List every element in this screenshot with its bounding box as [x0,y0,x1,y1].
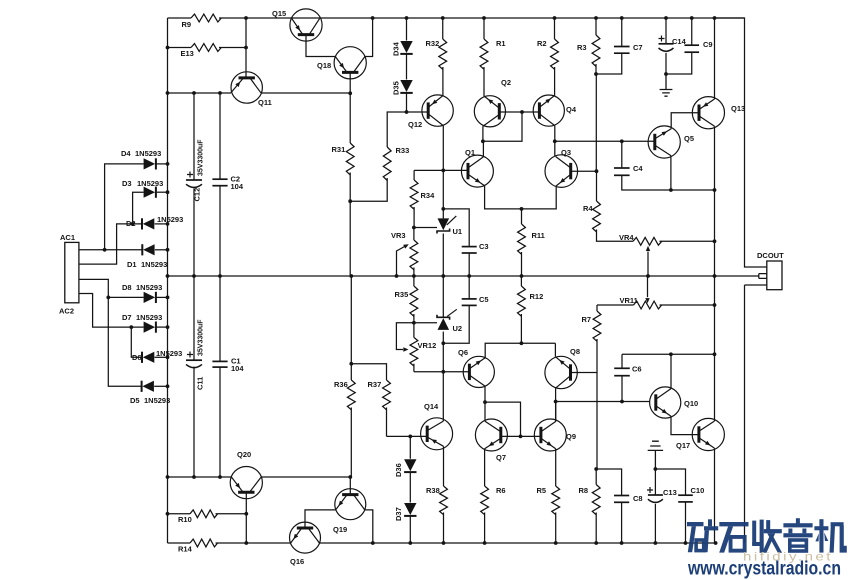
junction R14 right [244,541,248,545]
wire Q4 emitter row to Q5 base [555,140,655,142]
svg-text:U2: U2 [453,324,463,333]
wire Q11 row left [168,92,231,94]
wire D6 anode [155,356,168,358]
junction Q7 Q9 base [519,435,523,439]
svg-text:D4: D4 [121,149,131,158]
wire R31 top [349,93,351,143]
wire R37 bottom [386,408,389,437]
wire R33 top link [387,112,406,147]
svg-text:R36: R36 [334,380,348,389]
wire Q10 base row [556,401,650,403]
wire R31 bottom to mid rail [349,173,351,277]
junction E13 left [166,46,170,50]
wire Q2 Q4 base row [499,111,538,113]
wire R34 bottom [413,207,415,228]
svg-text:Q9: Q9 [566,432,576,441]
junction Q11 row x350 [348,91,352,95]
svg-text:1N5293: 1N5293 [136,283,162,292]
wire Q4 emitter to Q3 [554,126,556,157]
capacitor C2 [212,175,243,191]
junction x714 y190 [713,188,717,192]
wire Q18 base down [349,72,351,93]
svg-text:D2: D2 [126,219,136,228]
resistor E13 [191,44,221,52]
wire R2 top [554,18,556,39]
ground bottom [648,441,663,469]
junction top rail x372 [371,16,375,20]
wire C13 top [654,469,656,495]
wire R5 bottom [555,513,557,544]
wire R36 top [350,276,352,380]
wire Q6 collector up [485,343,555,357]
wire R6 bottom [484,513,486,544]
wire R10 left [168,513,191,515]
wire Q1 Q3 emitter link [485,186,557,209]
junction mid rail x648 [646,274,650,278]
resistor R2 [551,39,559,69]
watermark chinese text kuangshishouyinji [687,518,847,553]
wire VR4 right [660,240,715,242]
resistor R4 [593,201,601,232]
wire DCOUT mid stubs [759,274,767,279]
svg-text:1N5293: 1N5293 [157,215,183,224]
svg-text:D8: D8 [122,283,132,292]
svg-text:104: 104 [231,364,244,373]
svg-text:Q11: Q11 [258,98,272,107]
junction C13 top [654,467,658,471]
junction left column D2 [166,222,170,226]
wire R8 C8 top link [596,469,621,495]
svg-text:VR4: VR4 [619,233,634,242]
junction R10 right [244,512,248,516]
svg-text:C12: C12 [193,188,202,202]
wire E13 row left [168,47,192,49]
junction C14 C9 gnd [664,72,668,76]
wire base row drop [483,112,522,141]
svg-text:1N5293: 1N5293 [135,149,161,158]
wire R7 top link [596,305,598,311]
svg-text:1N5293: 1N5293 [136,313,162,322]
svg-text:Q2: Q2 [501,78,511,87]
junction Q6 base [441,370,445,374]
junction Q1 base x443 [441,169,445,173]
capacitor C7 [614,43,643,53]
svg-text:C14: C14 [672,37,687,46]
junction mid rail x220 [218,274,222,278]
junction C6 bottom [620,400,624,404]
junction R8 top [594,467,598,471]
junction top rail x554 [553,16,557,20]
junction left column D6 [166,355,170,359]
diode D36 [394,459,417,477]
wire D7 cathode [156,326,167,328]
junction bottom rail R38 [442,541,446,545]
wire R32 top [442,18,444,39]
junction mid rail x396 [395,274,399,278]
wire R37 top link [351,364,386,380]
wire bottom rail [319,542,715,544]
junction mid rail x714 [713,274,717,278]
wire C3 bottom [468,253,470,276]
wire C8 bottom [621,502,623,543]
svg-text:www.crystalradio.cn: www.crystalradio.cn [687,559,841,580]
wire R1 to Q2 [483,67,485,96]
svg-text:AC1: AC1 [60,233,75,242]
svg-text:1N5293: 1N5293 [144,396,170,405]
junction mid rail x351 [349,274,353,278]
svg-text:D37: D37 [394,507,403,521]
wire Q7 emitter down [484,449,486,486]
svg-text:D35: D35 [392,81,401,95]
svg-text:E13: E13 [181,49,194,58]
svg-text:VR11: VR11 [620,296,638,305]
wiper of VR4 [647,252,649,277]
wire C2 column [219,93,221,477]
svg-text:D1: D1 [127,260,137,269]
svg-text:C9: C9 [703,40,713,49]
svg-text:AC2: AC2 [59,307,74,316]
svg-text:C13: C13 [663,488,677,497]
transistor Q12 [408,95,453,129]
junction R3 C7 [594,72,598,76]
wire VR3 leads [413,228,415,277]
capacitor C13 [647,487,677,502]
svg-text:R37: R37 [368,380,382,389]
svg-text:R32: R32 [426,39,440,48]
wire D8 cathode [156,296,167,298]
transistor Q4 [533,95,577,126]
wire R35 bottom [413,314,415,323]
wire left vertical [167,18,169,543]
wire C3 link [443,209,469,246]
svg-text:VR3: VR3 [391,231,406,240]
svg-text:104: 104 [231,182,244,191]
svg-text:35V3300uF: 35V3300uF [198,319,205,356]
junction C6 rail x670 [669,352,673,356]
junction Q11 row x194 [192,91,196,95]
resistor R1 [480,39,488,69]
svg-text:U1: U1 [453,227,463,236]
wire Q13 base link [671,113,699,129]
wire Q15 base column [245,18,247,79]
junction Q4 emitter [553,139,557,143]
connector DCOUT [767,261,782,290]
transistor Q7 [475,419,507,462]
wire Q18 collector up [365,18,373,57]
wire D4 cathode [156,163,167,165]
junction Q20 rail x350 [348,475,352,479]
transistor Q3 [545,148,578,187]
svg-text:C7: C7 [633,43,643,52]
svg-text:1N5293: 1N5293 [137,179,163,188]
junction D3 D2 node [131,222,135,226]
junction pin1 x104 [103,248,107,252]
transistor Q20 [230,450,262,499]
resistor R3 [592,35,600,66]
svg-text:35V3300uF: 35V3300uF [198,139,205,176]
junction bottom rail C8 [620,541,624,545]
resistor R6 [481,486,489,515]
wire top rail right of R9 [219,17,745,19]
junction VR4 x714 [713,239,717,243]
wire C6 top link [621,354,623,368]
junction mid rail x413 [412,274,416,278]
wire top rail [168,17,192,19]
resistor R38 [440,486,448,543]
connector AC1 AC2 [65,242,79,302]
resistor R10 [190,510,218,518]
svg-text:D34: D34 [392,41,401,56]
junction bottom rail Q19 [371,541,375,545]
svg-text:Q18: Q18 [317,61,331,70]
wire D5 anode [154,385,167,387]
wire C7 bottom link [596,53,622,74]
capacitor C1 [212,357,244,374]
junction R12 bottom [520,341,524,345]
wire Q9 emitter down [555,449,557,486]
wire AC pin1 [79,249,142,251]
diode D3 [122,179,163,198]
transistor Q10 [650,387,699,418]
wire D2 anode [155,223,168,225]
junction left column D7 [166,325,170,329]
resistor R31 [346,143,354,175]
junction bottom rail R8 [594,541,598,545]
wire R12 bottom [520,314,522,343]
svg-text:VR12: VR12 [418,341,437,350]
junction top rail x621 [620,16,624,20]
transistor Q17 [676,418,724,450]
diode D1 [127,244,167,269]
junction U1 C3 [441,207,445,211]
svg-text:D36: D36 [394,463,403,477]
svg-text:Q6: Q6 [458,348,468,357]
svg-text:R12: R12 [530,292,544,301]
svg-text:Q3: Q3 [561,148,571,157]
resistor R9 [191,14,221,22]
junction E13 x246 [244,46,248,50]
transistor Q11 [231,72,272,107]
wire R3 top [595,18,597,35]
resistor R12 [518,286,526,316]
wire C10 top link [655,469,685,495]
wire R2 to Q4 [554,67,556,96]
svg-text:R4: R4 [583,204,593,213]
wire AC pin3 [79,279,142,386]
junction base row x522 [520,110,524,114]
junction pin3 D8 [106,296,110,300]
junction D35 R33 Q12 base [405,110,409,114]
junction Q6 emitter branch [483,400,487,404]
svg-text:C8: C8 [633,494,643,503]
wire VR12 bottom row [414,371,468,373]
capacitor C14 [659,36,687,52]
wire R33 bottom link [350,178,387,201]
junction bottom rail C13 [654,541,658,545]
wire Q13 emitter down [714,126,716,421]
wire Q20 base down [245,492,247,543]
svg-text:R38: R38 [426,486,440,495]
svg-text:Q15: Q15 [272,9,286,18]
diode D37 [394,503,417,521]
svg-text:Q8: Q8 [570,347,580,356]
wire D3 cathode [156,191,167,193]
wire C14 bottom [665,53,667,74]
svg-text:D5: D5 [130,396,140,405]
junction top rail x714 [713,16,717,20]
junction Q14 base x410 [408,435,412,439]
transistor Q19 [333,489,366,534]
wire Q7 Q9 base row [501,435,541,437]
junction Q11 row x167 [166,91,170,95]
wire DCOUT lower pin [745,285,767,543]
junction bottom rail Q17 [714,541,718,545]
transistor Q1 [461,148,493,187]
wire VR11 left [597,304,634,306]
svg-text:Q16: Q16 [290,557,304,566]
wire C14 top [665,18,667,44]
wire AC pin4 [79,294,144,328]
junction top rail x406 [405,16,409,20]
junction mid rail x167 [166,274,170,278]
svg-text:D6: D6 [132,353,142,362]
svg-text:Q17: Q17 [676,441,690,450]
wire VR3 top to U1 [414,227,437,229]
wire R35 top [413,276,415,286]
junction bottom rail R6 [483,541,487,545]
wire D8 anode [108,296,143,298]
resistor R34 [410,180,418,209]
wire Q11 row right [261,92,350,94]
diode D2 [126,215,183,230]
wire Q2 emitter down [482,126,484,141]
svg-text:VR12: VR12 [0,0,19,2]
ground top [660,74,673,96]
resistor R14 [190,539,218,547]
wire VR11 right [660,304,715,306]
wire D chain top [105,164,144,250]
wire R3 bottom [595,64,597,74]
diode D5 [130,381,170,405]
wire Q19 base up [349,477,351,495]
wire C10 bottom [685,502,687,543]
wire Q6 emitter down [484,386,486,421]
wire R7 down [596,339,598,469]
capacitor C10 [678,486,704,502]
wire U1 cathode [442,170,444,218]
wire Q19 emitter [365,510,373,543]
resistor R5 [552,486,560,515]
svg-text:D7: D7 [122,313,132,322]
diode D7 [122,313,162,333]
transistor Q18 [317,47,366,79]
junction top rail x246 [244,16,248,20]
junction Q20 rail x167 [166,475,170,479]
wire Q17 emitter down [714,448,716,543]
junction top rail x484 [482,16,486,20]
svg-text:Q5: Q5 [684,134,694,143]
wire VR12 top wire to U2 [414,322,437,324]
svg-text:Q4: Q4 [566,105,577,114]
resistor R7 [593,311,601,341]
capacitor C12 [186,172,202,202]
transistor Q13 [692,97,745,129]
diode D8 [122,283,162,303]
svg-text:1N5293: 1N5293 [141,260,167,269]
wire R32 to Q12 [442,67,444,96]
wire D36 chain [409,436,411,543]
diode D6 [132,349,182,363]
wire U2 top [442,276,444,317]
wire D1 anode [155,249,168,251]
resistor R11 [518,209,526,276]
svg-text:R11: R11 [532,231,545,240]
capacitor C6 [614,365,641,376]
wire U2 bottom [442,332,444,422]
wire E13 row right [219,47,246,49]
junction Q2 emitter Q1 collector [481,139,485,143]
transistor Q16 [290,522,321,566]
wire Q12 emitter down [442,126,444,171]
svg-text:C3: C3 [479,242,489,251]
junction C4 top [620,139,624,143]
wire C7 top [621,18,623,46]
svg-text:R35: R35 [395,290,409,299]
wire C5 top [468,276,470,299]
wire C9 bottom link [666,52,692,74]
wire C12 column [193,93,195,477]
junction R4 top [595,169,599,173]
resistor R33 [383,147,391,181]
resistor R36 [347,380,355,410]
zener U1 [437,216,462,236]
svg-text:C10: C10 [691,486,705,495]
wire C9 top [691,18,693,45]
junction top rail x442 [441,16,445,20]
wire Q20 rail right [261,476,350,478]
svg-text:Q19: Q19 [333,525,347,534]
diode D4 [121,149,161,170]
svg-text:R31: R31 [332,145,346,154]
junction left column D4 [166,162,170,166]
junction mid rail x194 [192,274,196,278]
junction Q8 emitter node [554,400,558,404]
diode D34 [392,41,413,56]
wire C4 bottom link [622,175,715,190]
svg-text:Q1: Q1 [465,148,475,157]
junction R10 left [166,512,170,516]
junction VR3 top [412,226,416,230]
svg-text:R33: R33 [396,146,410,155]
svg-text:Q12: Q12 [408,120,422,129]
wire R34 top link [413,170,415,180]
svg-text:R1: R1 [496,39,506,48]
wire R1 top [483,18,485,39]
wire Q9 collector up [555,402,557,422]
svg-text:R8: R8 [579,486,589,495]
svg-text:R10: R10 [178,515,192,524]
capacitor C4 [614,164,643,175]
wire Q8 collector [554,343,556,356]
resistor VR4 [633,237,662,245]
junction left column D3 [166,190,170,194]
wire C5 link [443,305,469,343]
svg-text:Q7: Q7 [496,453,506,462]
junction bottom rail D37 [408,541,412,545]
wire base branch [485,402,521,436]
transistor Q5 [648,126,694,158]
wire C6 top rail [622,353,715,355]
